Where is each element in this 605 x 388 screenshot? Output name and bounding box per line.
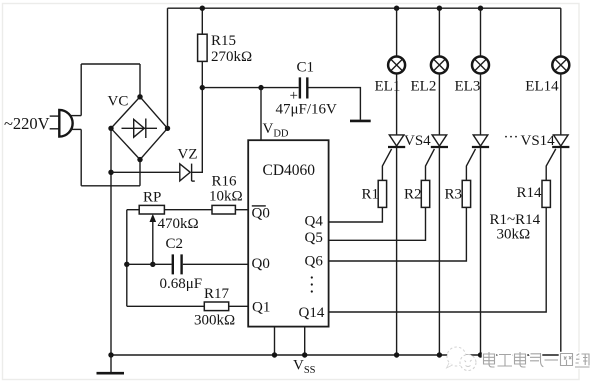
thyristor VS5 cathode bar xyxy=(431,146,448,148)
op IC U1 CD4060 box xyxy=(248,140,328,326)
capacitor C2 plates xyxy=(173,254,182,274)
thyristor VS5 triangle xyxy=(432,135,447,146)
pin label Q0bar with overline xyxy=(252,206,270,222)
svg-text:CD4060: CD4060 xyxy=(263,162,316,179)
wire lamp1 to VS4 xyxy=(396,74,398,135)
pin label Q14 xyxy=(299,305,325,321)
label R15 xyxy=(211,33,236,49)
svg-text:300kΩ: 300kΩ xyxy=(194,313,235,329)
wire Q5 output to R2 xyxy=(329,207,426,240)
label RP xyxy=(143,190,161,206)
label EL14 xyxy=(525,79,559,95)
wire up to bridge bottom vertex xyxy=(139,160,141,186)
pin label Q5 xyxy=(305,230,323,246)
wire bridge right vertex riser to top rail xyxy=(167,8,169,128)
node bridge left vertex xyxy=(108,126,113,131)
wire plug lower terminal xyxy=(70,128,81,130)
svg-text:30kΩ: 30kΩ xyxy=(497,227,531,243)
node VDD supply junction xyxy=(200,85,205,90)
svg-text:···: ··· xyxy=(504,130,519,146)
resistor R3 body xyxy=(462,180,470,207)
svg-text:R3: R3 xyxy=(445,187,463,203)
thyristor VS14 triangle xyxy=(554,135,569,146)
svg-text:0.68μF: 0.68μF xyxy=(160,276,203,292)
label VZ xyxy=(178,147,198,163)
lamp EL3 xyxy=(472,57,489,74)
label 270kΩ xyxy=(211,49,252,65)
wire lamp14 to VS14 xyxy=(560,74,562,135)
label 10kΩ xyxy=(209,189,243,205)
wire VS5 cathode to bottom rail xyxy=(438,147,440,355)
wire down left side xyxy=(80,129,82,185)
svg-text:~220V: ~220V xyxy=(4,114,50,133)
pin label VDD xyxy=(263,121,289,140)
bridge inner diode triangle xyxy=(134,119,145,137)
thyristor VS4 triangle xyxy=(389,135,404,146)
plug XP (半圆插头) xyxy=(59,110,72,137)
wire stub upper from ~220V xyxy=(50,115,59,117)
label 0.68μF xyxy=(160,276,203,292)
wire lamp2 top lead xyxy=(438,8,440,56)
label EL3 xyxy=(455,78,481,94)
node lamp1 tap xyxy=(394,6,399,11)
label R2 xyxy=(404,187,422,203)
resistor R14 body xyxy=(542,180,550,207)
wire VDD drop to IC xyxy=(260,88,262,141)
thyristor VS14 cathode bar xyxy=(552,146,569,148)
watermark text 电工电气一网通 xyxy=(484,352,590,367)
wire C2 left xyxy=(127,263,172,265)
label R17 xyxy=(204,286,230,302)
resistor R1 body xyxy=(378,180,386,207)
svg-text:Q14: Q14 xyxy=(299,305,325,321)
label + polarity xyxy=(290,88,298,104)
potentiometer RP body xyxy=(139,205,164,214)
svg-text:10kΩ: 10kΩ xyxy=(209,189,243,205)
label 300kΩ xyxy=(194,313,235,329)
wire RP wiper arrow xyxy=(150,214,157,264)
svg-text:C2: C2 xyxy=(166,236,184,252)
label R14 xyxy=(517,185,543,201)
capacitor C1 plates xyxy=(300,77,307,98)
resistor R15 body xyxy=(198,34,208,61)
wire riser to top-left corner xyxy=(80,64,82,116)
svg-text:470kΩ: 470kΩ xyxy=(158,216,199,232)
svg-text:Q1: Q1 xyxy=(252,299,270,315)
node bridge right vertex xyxy=(165,126,170,131)
svg-text:R16: R16 xyxy=(212,174,238,190)
wire Q0bar pin lead xyxy=(235,209,248,211)
label CD4060 xyxy=(263,162,316,179)
label R16 xyxy=(212,174,238,190)
wire Q4 output to R1 xyxy=(329,207,383,222)
svg-text:Q5: Q5 xyxy=(305,230,323,246)
label 47μF/16V xyxy=(276,101,338,117)
label 470kΩ xyxy=(158,216,199,232)
label R3 xyxy=(445,187,463,203)
wire Q14 output to R14 xyxy=(329,207,547,312)
wire lamp1 top lead xyxy=(396,8,398,56)
wire R17 left lead xyxy=(127,305,205,307)
svg-text:R1: R1 xyxy=(362,187,380,203)
pin label Q6 xyxy=(305,253,324,269)
wire top-left horizontal xyxy=(81,63,140,65)
svg-text:C1: C1 xyxy=(297,60,315,76)
diode VZ cathode bar xyxy=(192,164,195,182)
svg-text:R17: R17 xyxy=(204,286,230,302)
node VSS pin1 on rail xyxy=(272,352,277,357)
ground symbol xyxy=(97,355,125,373)
node C2 rail junction xyxy=(124,262,129,267)
label R1~R14 xyxy=(490,212,541,228)
node column1 bottom xyxy=(394,352,399,357)
node VDD tap xyxy=(258,85,263,90)
wire top rail xyxy=(168,7,561,9)
svg-text:R14: R14 xyxy=(517,185,543,201)
wire VS6 cathode to bottom rail xyxy=(480,147,482,355)
svg-text:Q4: Q4 xyxy=(305,213,324,229)
bridge inner line xyxy=(122,127,158,129)
AC source label ~220V xyxy=(4,114,50,133)
svg-text:270kΩ: 270kΩ xyxy=(211,49,252,65)
pin label Q4 xyxy=(305,213,324,229)
wire down to bridge top vertex xyxy=(139,64,141,97)
svg-text:R15: R15 xyxy=(211,33,236,49)
ground bar at C1 xyxy=(350,120,371,123)
label EL1 xyxy=(375,78,401,94)
svg-text:EL14: EL14 xyxy=(525,79,559,95)
label C1 xyxy=(297,60,315,76)
wire VS14 gate xyxy=(546,149,556,181)
svg-text:VS14: VS14 xyxy=(521,133,556,149)
wire C1 right to ground xyxy=(309,88,361,120)
svg-text:Q6: Q6 xyxy=(305,253,324,269)
label VS4 xyxy=(404,133,431,149)
node VZ tap on left rail xyxy=(108,170,113,175)
wire Q6 output to R3 xyxy=(329,207,467,261)
node lamp3 tap xyxy=(478,6,483,11)
label ellipsis VS14 xyxy=(504,130,556,149)
node wiper junction xyxy=(150,262,155,267)
node column3 bottom xyxy=(478,352,483,357)
wire to VZ anode xyxy=(111,171,179,173)
svg-text:R2: R2 xyxy=(404,187,422,203)
wire RP left lead xyxy=(127,209,139,211)
node bottom rail left end xyxy=(108,352,113,357)
bridge inner diode bar xyxy=(145,119,147,139)
wire lamp14 top lead xyxy=(560,8,562,56)
wire VS4 cathode to bottom rail xyxy=(396,147,398,355)
label EL2 xyxy=(411,78,437,94)
pin label Q0 xyxy=(252,256,270,272)
svg-text:EL2: EL2 xyxy=(411,78,437,94)
wire bottom-left horizontal under bridge xyxy=(81,185,140,187)
wire C2 right to Q0 pin xyxy=(183,263,248,265)
lamp EL1 xyxy=(388,57,405,74)
lamp EL2 xyxy=(431,57,448,74)
wire lamp3 top lead xyxy=(480,8,482,56)
diode VZ triangle xyxy=(180,164,190,181)
resistor R16 body xyxy=(212,205,235,214)
wire VSS pin 2 xyxy=(304,327,306,355)
node bridge top vertex xyxy=(137,94,142,99)
node column2 bottom xyxy=(437,352,442,357)
wire VS4 gate xyxy=(382,149,391,181)
thyristor VS6 triangle xyxy=(473,135,488,146)
wire R17 to Q1 pin xyxy=(229,305,249,307)
svg-text:RP: RP xyxy=(143,190,161,206)
wire stub lower from ~220V xyxy=(50,128,59,130)
wire VZ cathode up to R15 bottom node xyxy=(191,61,202,172)
bridge rectifier VC diamond xyxy=(111,97,168,160)
node VSS pin2 on rail xyxy=(302,352,307,357)
label VC xyxy=(108,94,129,110)
svg-text:VZ: VZ xyxy=(178,147,198,163)
resistor R2 body xyxy=(421,180,429,207)
wire R15 top lead xyxy=(201,8,203,34)
resistor R17 body xyxy=(204,302,228,311)
wire R16 to RP xyxy=(164,209,212,211)
wire plug upper terminal xyxy=(70,115,81,117)
wire VS14 cathode to bottom rail corner xyxy=(560,147,562,355)
label R1 xyxy=(362,187,380,203)
lamp EL14 xyxy=(552,57,569,74)
svg-text:VC: VC xyxy=(108,94,129,110)
wire VS5 gate xyxy=(426,149,435,181)
watermark logo bubble xyxy=(447,347,477,371)
pin label Q1 xyxy=(252,299,270,315)
wire bridge left vertex drop to bottom rail xyxy=(110,128,112,355)
label C2 xyxy=(166,236,184,252)
thyristor VS4 cathode bar xyxy=(388,146,405,148)
node bridge bottom vertex xyxy=(137,157,142,162)
wire bottom rail xyxy=(111,354,561,356)
pin label VSS xyxy=(293,358,316,377)
svg-text:47μF/16V: 47μF/16V xyxy=(276,101,338,117)
label 30kΩ xyxy=(497,227,531,243)
wire RP left rail down xyxy=(126,210,128,307)
thyristor VS6 cathode bar xyxy=(472,146,489,148)
svg-text:R1~R14: R1~R14 xyxy=(490,212,541,228)
svg-text:Q0: Q0 xyxy=(252,206,270,222)
svg-text:Q0: Q0 xyxy=(252,256,270,272)
wire lamp2 to VS5 xyxy=(438,74,440,135)
wire lamp3 to VS6 xyxy=(480,74,482,135)
node lamp2 tap xyxy=(437,6,442,11)
node R15 on top rail xyxy=(200,6,205,11)
wire VS6 gate xyxy=(466,149,475,181)
wire VSS pin 1 xyxy=(274,327,276,355)
wire VDD node to C1 left plate xyxy=(202,87,298,89)
svg-text:VS4: VS4 xyxy=(404,133,431,149)
ellipsis dots inside IC xyxy=(311,276,313,292)
svg-text:EL3: EL3 xyxy=(455,78,481,94)
